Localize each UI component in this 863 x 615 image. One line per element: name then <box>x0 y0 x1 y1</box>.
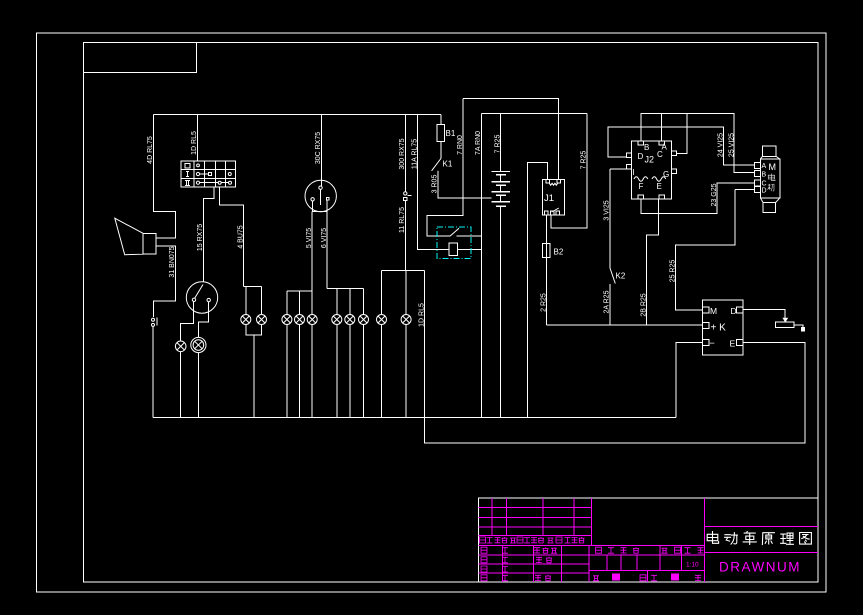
svg-text:2B R25: 2B R25 <box>641 293 648 316</box>
svg-text:M: M <box>710 306 717 316</box>
svg-text:1:10: 1:10 <box>686 562 699 569</box>
wire controller D to potentiometer <box>743 310 785 319</box>
svg-text:3 VI25: 3 VI25 <box>604 200 611 220</box>
svg-text:4 BU75: 4 BU75 <box>238 225 245 248</box>
switch K1 <box>432 159 441 171</box>
wire K1 lower lead <box>437 170 439 172</box>
wire top link 7A <box>482 112 588 114</box>
brake switch (push button) <box>152 317 157 326</box>
wire horn lower / 31 BN075 <box>153 246 175 317</box>
svg-text:4D RL75: 4D RL75 <box>147 136 154 164</box>
wire 6 VI75 <box>326 212 328 289</box>
svg-text:23 G25: 23 G25 <box>711 183 718 206</box>
switch K2 <box>610 268 616 284</box>
wire J2 A drop <box>661 114 663 142</box>
wire coil right lead <box>457 248 481 250</box>
wire 15 RX75 feed light switch <box>204 187 214 282</box>
svg-text:I: I <box>633 168 635 177</box>
drawing title 电动车原理图 <box>707 532 811 545</box>
controller pin labels <box>710 306 737 349</box>
light switch <box>186 282 217 313</box>
wire 7 R25 right J1 loop <box>551 113 587 228</box>
svg-text:G: G <box>663 170 669 179</box>
wire 7 RN0 <box>427 99 463 236</box>
ignition switch <box>305 180 336 211</box>
relay switch contact <box>450 228 459 236</box>
svg-text:E: E <box>730 339 736 349</box>
svg-text:2A R25: 2A R25 <box>604 290 611 313</box>
J2 pin letters <box>633 143 670 192</box>
wire J2 C link <box>677 114 687 154</box>
svg-text:2 R25: 2 R25 <box>540 293 547 312</box>
wire E loop bottom <box>424 271 805 444</box>
svg-text:−: − <box>710 338 715 348</box>
wire K2 lower 2A R25 <box>609 284 611 325</box>
title block placeholder blocks <box>612 574 620 581</box>
wire lamps 1-2 join to bus <box>246 325 262 418</box>
svg-text:K2: K2 <box>616 272 626 281</box>
lamp row (10 lamps) <box>241 315 411 325</box>
inner border frame <box>84 43 819 583</box>
svg-text:F: F <box>639 182 644 191</box>
svg-text:M: M <box>769 162 777 172</box>
turn lamp left <box>175 341 186 352</box>
svg-text:D: D <box>762 188 767 195</box>
top-left legend box <box>84 43 197 73</box>
svg-text:B2: B2 <box>554 248 564 257</box>
motor M <box>755 146 780 213</box>
svg-text:25 VI25: 25 VI25 <box>729 133 736 157</box>
wire 5 VI75 <box>311 212 313 291</box>
fuse B2 <box>543 244 550 258</box>
turn lamp right double <box>191 337 206 352</box>
title block character rows (pseudo-glyphs) <box>480 537 704 581</box>
svg-text:B: B <box>762 172 767 179</box>
motor pin letters <box>762 163 767 195</box>
wire light switch right out <box>198 302 208 338</box>
controller box <box>703 300 743 355</box>
motor M trapezoids <box>760 156 780 202</box>
svg-text:C: C <box>657 150 663 159</box>
potentiometer <box>776 318 805 331</box>
svg-text:DRAWNUM: DRAWNUM <box>719 560 801 575</box>
wire light switch left out <box>181 302 194 342</box>
wire top link 7RN0 <box>463 99 559 180</box>
svg-text:A: A <box>762 163 767 170</box>
wire turn lamps to bus <box>181 352 199 418</box>
connector plug symbol on 300RX75 wire <box>403 192 411 201</box>
title block grid magenta <box>479 498 819 582</box>
relay coil box <box>449 243 457 255</box>
wire K1 bottom <box>438 171 492 198</box>
J2 coil squiggles <box>634 177 666 182</box>
svg-text:+ K: + K <box>711 323 727 334</box>
wire 2 R25 B2 lower <box>545 257 547 325</box>
svg-text:11 RL75: 11 RL75 <box>399 207 406 233</box>
svg-text:D: D <box>638 152 644 161</box>
wire lamp drops to bus <box>287 325 406 418</box>
wire 11A RL75 to relay coil <box>418 115 450 250</box>
wire brake switch to bus <box>152 327 154 418</box>
wire bracket lamps 6-8 <box>327 289 363 315</box>
title block outer frame <box>479 498 819 582</box>
relay J1 <box>542 180 564 216</box>
wire controller M <box>675 190 735 311</box>
svg-text:B: B <box>644 143 649 152</box>
svg-text:J2: J2 <box>645 155 655 165</box>
svg-text:J1: J1 <box>544 193 554 204</box>
fuse B1 <box>437 124 445 158</box>
motor label M 电机 <box>769 162 777 172</box>
rotated wire labels <box>147 131 736 327</box>
bottom bus wire <box>153 417 676 419</box>
svg-text:11A RL75: 11A RL75 <box>411 139 418 169</box>
wire 300 RX75 / 11 RL75 <box>404 115 406 271</box>
wire J2 I pin to K2 <box>610 168 627 170</box>
battery GB <box>492 172 510 207</box>
svg-text:31 BN075: 31 BN075 <box>169 246 176 277</box>
svg-text:3 R05: 3 R05 <box>432 175 439 194</box>
svg-text:7 R25: 7 R25 <box>581 151 588 170</box>
wire ignition lower bar <box>312 211 327 213</box>
wire 4 BU75 feed lamps 1-2 <box>220 187 262 315</box>
wire switch lead right (cyan box) <box>457 235 482 237</box>
wire K2 upper 3 VI25 <box>609 169 611 268</box>
top bus wire <box>153 114 441 116</box>
svg-text:300 RX75: 300 RX75 <box>399 138 406 169</box>
relay cyan dashed box <box>437 227 471 259</box>
relay J1 coil squiggle <box>549 183 557 185</box>
svg-text:5 VI75: 5 VI75 <box>306 228 313 248</box>
svg-text:B1: B1 <box>446 129 456 138</box>
svg-text:25 R25: 25 R25 <box>670 260 677 283</box>
wire J2 D line to motor A <box>608 127 755 165</box>
wire J1 top-left long vertical <box>528 163 548 418</box>
wire battery bottom to bus <box>500 206 502 417</box>
wire B2 upper <box>545 215 547 244</box>
relay J1 switch arm <box>552 208 559 212</box>
wire bus to controller minus <box>676 343 702 418</box>
wire 30C RX75 to ignition switch <box>320 115 322 187</box>
wire 7A RN0 vertical <box>481 113 483 417</box>
svg-text:D: D <box>731 306 737 316</box>
svg-text:E: E <box>657 182 662 191</box>
wire 2B R25 from J2 E pin <box>647 199 659 325</box>
svg-text:15 RX75: 15 RX75 <box>197 224 204 251</box>
wire +K line <box>546 324 702 326</box>
svg-text:1D RL5: 1D RL5 <box>191 131 198 155</box>
connector grid symbols <box>185 172 190 186</box>
connector grid switch table <box>181 161 235 187</box>
wire motor C / 23 G25 <box>641 183 754 214</box>
wire bracket lamps 3-5 <box>287 291 312 315</box>
svg-text:30C RX75: 30C RX75 <box>315 132 322 164</box>
wire 4D RL75 to horn <box>153 115 175 239</box>
svg-text:7A RN0: 7A RN0 <box>475 131 482 155</box>
wire B1 drop <box>440 115 442 125</box>
wire bracket lamps 9-10 <box>382 271 425 315</box>
wire motor D to controller M <box>735 189 755 191</box>
svg-text:24 VI25: 24 VI25 <box>718 133 725 157</box>
svg-text:K1: K1 <box>443 160 453 169</box>
wire 1D RL5 to connector <box>196 115 198 162</box>
svg-text:C: C <box>762 181 767 188</box>
flasher J2 <box>627 141 677 199</box>
svg-text:7 RN0: 7 RN0 <box>457 135 464 155</box>
svg-text:6 VI75: 6 VI75 <box>321 228 328 248</box>
svg-text:7 R25: 7 R25 <box>494 135 501 154</box>
horn <box>115 218 156 255</box>
svg-text:1D RL5: 1D RL5 <box>418 303 425 327</box>
wire battery top <box>500 113 502 171</box>
wire J2 B line <box>641 114 755 173</box>
